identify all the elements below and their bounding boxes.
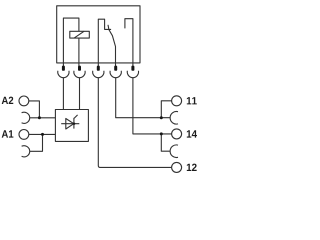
terminal cup 4 bbox=[110, 71, 121, 78]
relay coil diagonal mark bbox=[74, 31, 84, 38]
wire arc row into protection box bbox=[30, 117, 56, 119]
label A2 bbox=[2, 97, 14, 104]
junction dot 11 bbox=[160, 116, 163, 119]
terminal A1 circle bbox=[19, 130, 29, 140]
suppressor diode V1: anode line bbox=[61, 123, 79, 125]
suppressor diode V1: zener tick bbox=[74, 115, 78, 119]
contact 12 circle bbox=[172, 162, 182, 172]
input protection circuit box bbox=[55, 110, 88, 142]
label A1 bbox=[2, 130, 14, 137]
wire coil to terminal 2 bbox=[78, 38, 80, 66]
contact 11 circle bbox=[172, 96, 182, 106]
diode apex dot bbox=[73, 123, 75, 125]
wire terminal 1 to protection box bbox=[62, 78, 64, 110]
wire terminal 4 down to contact 11 row bbox=[116, 78, 171, 118]
wire A1 into protection box bbox=[29, 133, 56, 135]
terminal pin 5 bbox=[131, 66, 134, 71]
terminal cup 3 bbox=[93, 71, 104, 78]
terminal pin 3 bbox=[97, 66, 100, 71]
label 12 bbox=[187, 164, 197, 171]
relay coil K1 body bbox=[70, 31, 90, 38]
terminal A2 circle bbox=[19, 96, 29, 106]
plug arc below A1 bbox=[22, 146, 30, 157]
wire lower arc to A1 junction bbox=[30, 134, 43, 151]
wire terminal 5 down to contact 14 row bbox=[133, 78, 172, 134]
suppressor diode V1: cathode bar bbox=[73, 118, 75, 129]
label 11 bbox=[187, 97, 197, 104]
wire A2 to junction bbox=[29, 101, 40, 118]
contact 14 circle bbox=[172, 129, 182, 139]
terminal cup 2 bbox=[74, 71, 85, 78]
plug arc below 11 bbox=[170, 112, 178, 125]
contact common from terminal 3 with NC fixed contact tick bbox=[98, 19, 111, 66]
NO fixed contact hook to terminal 5 bbox=[125, 19, 133, 66]
junction dot A2 bbox=[38, 116, 41, 119]
terminal cup 5 bbox=[127, 71, 138, 78]
terminal cup 1 bbox=[58, 71, 69, 78]
label 14 bbox=[187, 130, 197, 137]
relay module outline box bbox=[57, 6, 140, 63]
wire 11 bracket bbox=[161, 101, 171, 118]
junction dot A1 bbox=[41, 133, 44, 136]
terminal pin 4 bbox=[114, 66, 117, 71]
contact moving blade to terminal 4 bbox=[108, 25, 116, 66]
suppressor diode V1: triangle bbox=[66, 119, 74, 130]
junction dot 14 bbox=[160, 132, 163, 135]
wire terminal 3 down to contact 12 bbox=[98, 78, 171, 168]
wire terminal 2 to protection box bbox=[79, 78, 81, 110]
plug arc below A2 bbox=[22, 112, 30, 123]
wire coil feed from terminal 1 bbox=[63, 18, 79, 66]
terminal pin 1 bbox=[62, 66, 65, 71]
plug arc below 14 bbox=[170, 145, 178, 158]
terminal pin 2 bbox=[78, 66, 81, 71]
wire 14 junction drop to arc bbox=[161, 134, 170, 151]
